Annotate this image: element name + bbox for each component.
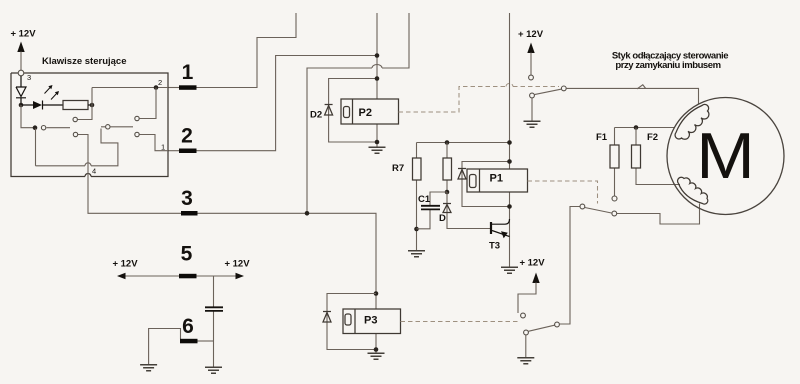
node: P1 loop bottom	[507, 204, 512, 209]
keypad box U-KEY	[11, 73, 168, 177]
wire: bar3 line from keypad pin4 to P3 column	[88, 177, 376, 294]
arrow left on bar5 line	[117, 273, 126, 280]
ground bottom switch	[517, 358, 534, 364]
wire: bar6 left wire	[149, 329, 181, 365]
node: pin2 row junction	[154, 85, 159, 90]
wire: resistor to node	[88, 104, 92, 106]
switch contact S-mid	[106, 125, 110, 129]
wire: F1 F2 top line to motor coil	[615, 127, 676, 129]
switch contact bottom +12V side	[521, 313, 526, 318]
svg-text:F1: F1	[596, 132, 608, 143]
arrow right on bar5 line	[236, 273, 245, 280]
wire: F2 column	[636, 128, 680, 185]
wire: bar2 to P2 column staircase	[197, 56, 378, 151]
ground P2	[369, 147, 386, 153]
relay P3 body	[343, 309, 401, 334]
node: P1 loop top	[507, 159, 512, 164]
motor lower coil	[678, 177, 708, 204]
svg-text:1: 1	[182, 61, 194, 84]
wire: R7 top line	[417, 142, 510, 144]
switch contact +12V top right	[529, 75, 534, 80]
fuse F1	[610, 145, 619, 168]
wire: disconnect pole to ground	[531, 98, 533, 121]
connector bar 5	[179, 274, 197, 279]
dashed hop over rail	[506, 84, 513, 87]
wire: P2 supply column	[376, 13, 378, 147]
wire: lower coil to lower-right switch	[617, 204, 700, 225]
dashed control link from P2 to disconnect switch	[399, 87, 560, 113]
relay P2 body	[341, 99, 399, 124]
relay P2 divider	[352, 99, 354, 124]
wire: row2 right contact to pin1	[139, 135, 168, 151]
ground P3	[368, 353, 385, 359]
wire: inner bottom line with hop over pin4 wire	[36, 129, 118, 166]
switch blade bottom	[528, 325, 554, 331]
ground capacitor column	[205, 367, 222, 373]
wire: P3 freewheel loop	[327, 294, 376, 350]
diode D2	[325, 105, 333, 116]
switch contact row2 middle	[73, 132, 77, 136]
wire: keypad pin1 to bar2	[168, 150, 179, 152]
svg-text:2: 2	[158, 78, 162, 87]
wire: row1 right contact to pin2 row	[139, 88, 156, 119]
switch pole bottom (to ground)	[524, 330, 529, 335]
svg-text:F2: F2	[647, 132, 658, 143]
connector bar 2	[179, 149, 197, 154]
dashed control link from P1 to lower right switch	[528, 181, 598, 204]
LED D-LED	[16, 76, 26, 104]
wire: disconnect contact to motor top	[566, 88, 698, 104]
switch pole lower-right	[580, 204, 585, 209]
switch blade lower-right	[585, 208, 612, 214]
relay P3 divider	[354, 309, 356, 334]
connector bar 6	[180, 339, 198, 344]
node: F2 top junction	[634, 125, 639, 130]
svg-text:T3: T3	[489, 241, 500, 252]
svg-text:P2: P2	[359, 107, 372, 119]
svg-text:3: 3	[181, 187, 193, 210]
node: top line / second resistor	[445, 140, 450, 145]
wire: inner loop left	[35, 129, 37, 166]
+12V top right	[518, 29, 544, 75]
wire: P1 freewheel loop	[462, 162, 510, 207]
switch contact upper middle	[73, 117, 77, 121]
ground R7 column	[408, 251, 425, 257]
wire: P3 supply column	[375, 294, 377, 353]
wire: LED node down to row1 switch	[21, 105, 33, 128]
chevron mark on wire	[637, 85, 646, 89]
node: bar2 line to P2 column	[375, 53, 380, 58]
svg-text:C1: C1	[418, 194, 431, 205]
wire: F1 column	[614, 128, 616, 197]
svg-text:+ 12V: + 12V	[112, 259, 138, 270]
motor upper coil	[675, 104, 709, 139]
svg-text:P1: P1	[490, 173, 503, 185]
svg-text:+ 12V: + 12V	[519, 258, 545, 269]
switch contact row2 right	[135, 132, 139, 136]
keypad box bottom hop	[85, 174, 91, 177]
wire: +12V feed line at bar 5	[118, 275, 243, 277]
wire: node up to pin2 row	[92, 88, 168, 106]
diode D3 (P3 freewheel)	[323, 312, 331, 323]
+12V supply top-left	[10, 28, 36, 70]
svg-text:5: 5	[181, 243, 193, 266]
switch contact disconnect output	[561, 86, 566, 91]
svg-text:D: D	[439, 213, 446, 224]
svg-text:R7: R7	[392, 163, 404, 174]
svg-text:+ 12V: + 12V	[224, 259, 250, 270]
capacitor C1	[421, 206, 440, 210]
wire: keypad pin2 to bar1	[168, 87, 179, 89]
wire: diode D branch to T3 base	[447, 192, 490, 229]
relay P1 coil core	[470, 175, 477, 188]
diode D	[443, 204, 451, 213]
node: R8 / C1 / D junction	[445, 190, 450, 195]
switch pole disconnect (to ground)	[530, 93, 535, 98]
wire hop over P2 column	[372, 65, 382, 69]
connector bar 1	[179, 85, 197, 90]
svg-text:przy zamykaniu imbusem: przy zamykaniu imbusem	[615, 60, 720, 71]
fuse F2	[632, 145, 641, 168]
svg-text:+ 12V: + 12V	[518, 29, 544, 40]
wire: bottom contact to right rail	[559, 207, 580, 325]
node: R7/C1 ground junction	[414, 227, 419, 232]
connector bar 3	[181, 211, 198, 216]
node: row1 switch junction	[33, 125, 38, 130]
ground T3 emitter rail	[501, 267, 518, 273]
node: top line / rail	[507, 140, 512, 145]
diode D4 (P1 freewheel)	[458, 169, 466, 180]
svg-text:3: 3	[27, 73, 31, 82]
svg-text:6: 6	[182, 315, 194, 338]
transistor T3	[491, 219, 510, 238]
wire: top stub to bar 1 staircase	[179, 13, 296, 88]
wire: D2 freewheel loop	[329, 79, 377, 143]
switch contact row1 left	[41, 126, 45, 130]
svg-text:D2: D2	[310, 110, 322, 121]
relay P1 divider	[479, 169, 481, 192]
wire: bar6 to capacitor column	[198, 340, 214, 342]
node: P3 loop top	[374, 291, 379, 296]
wire hop on inner bottom line	[85, 163, 91, 166]
svg-text:Klawisze sterujące: Klawisze sterujące	[42, 56, 127, 67]
resistor R8 (unlabelled)	[443, 158, 452, 180]
node: D2 loop top	[375, 76, 380, 81]
wire: R7 column	[416, 143, 418, 251]
resistor R-key	[63, 101, 88, 110]
LED emission arrows	[45, 85, 60, 100]
wire: pole to ground	[525, 335, 527, 357]
svg-text:2: 2	[181, 125, 193, 148]
svg-text:P3: P3	[364, 315, 377, 327]
dashed control link from P3 to bottom switch	[401, 321, 520, 323]
keypad pin 3 terminal circle	[18, 70, 24, 76]
wire: capacitor column from bar5 line	[213, 276, 215, 367]
node: resistor output junction	[90, 103, 95, 108]
svg-text:M: M	[696, 121, 755, 193]
wire: bar1 right to staircase	[197, 87, 258, 89]
motor M1	[667, 98, 784, 215]
relay P2 coil core	[344, 107, 350, 118]
terminal circle F1 bottom	[612, 196, 617, 201]
wire: node down to upper middle contact	[78, 105, 93, 120]
wire: C1 branch	[417, 192, 448, 229]
wire: rail from top to T3 ground	[509, 13, 511, 267]
wire: second resistor column	[446, 143, 448, 193]
wire: LED row	[21, 104, 64, 106]
switch blade disconnect	[534, 89, 561, 94]
+12V mid arrow	[518, 258, 545, 314]
switch blade S-mid	[101, 126, 133, 128]
node: P3 loop bottom	[374, 347, 379, 352]
wire: contact to pin4 column	[78, 135, 88, 177]
switch contact lower-right output	[612, 211, 617, 216]
relay P3 coil core	[345, 314, 351, 325]
ground bar6	[140, 365, 157, 371]
resistor R7	[413, 158, 422, 180]
switch contact bottom right side	[555, 322, 560, 327]
node: bar3 / wireB junction	[305, 211, 310, 216]
ground disconnect switch	[524, 121, 541, 127]
wire B: top stub to bar3 rail with hop over P2 column	[307, 13, 409, 213]
node: D2 loop bottom	[375, 140, 380, 145]
svg-text:+ 12V: + 12V	[10, 28, 36, 39]
svg-text:1: 1	[161, 143, 165, 152]
svg-text:4: 4	[92, 167, 96, 176]
node: LED junction	[19, 103, 24, 108]
switch blade row1 left	[47, 127, 71, 129]
switch contact row1 right	[135, 116, 139, 120]
relay P1 body	[467, 169, 528, 192]
diode D-key (series diode)	[33, 101, 42, 109]
label M	[696, 121, 755, 193]
capacitor C-filter	[205, 307, 223, 311]
